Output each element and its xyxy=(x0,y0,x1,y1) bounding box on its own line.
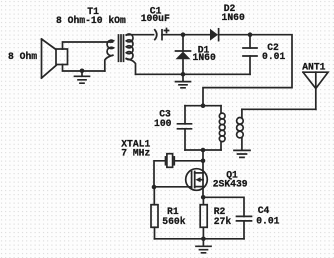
svg-text:100: 100 xyxy=(154,118,172,129)
antenna ANT1 xyxy=(303,72,328,109)
wire coil to antenna xyxy=(242,108,316,110)
wire tank bottom to Q1 drain xyxy=(202,150,204,197)
svg-text:8 Ohm-10 kOm: 8 Ohm-10 kOm xyxy=(56,15,126,26)
capacitor C1 100uF xyxy=(155,29,169,40)
node crystal/drain xyxy=(201,159,206,164)
wire node to D2 xyxy=(183,34,210,36)
node speaker ground junction xyxy=(80,69,85,74)
svg-text:1N60: 1N60 xyxy=(193,52,216,63)
node bottom ground junction xyxy=(201,237,206,242)
svg-text:1N60: 1N60 xyxy=(222,12,245,23)
capacitor C2 0.01 xyxy=(243,35,257,75)
wire T1 secondary bottom xyxy=(126,59,135,75)
node D2/C2 xyxy=(248,32,253,37)
wire speaker top to T1 xyxy=(63,42,113,49)
node gate junction xyxy=(152,185,157,190)
svg-text:8 Ohm: 8 Ohm xyxy=(8,51,37,62)
ground D1 node xyxy=(176,74,191,88)
diode D1 1N60 xyxy=(176,35,191,75)
ground bottom xyxy=(196,239,211,253)
svg-text:ANT1: ANT1 xyxy=(302,62,325,73)
wire node to right corner down to tank xyxy=(203,35,292,106)
svg-text:2SK439: 2SK439 xyxy=(213,178,248,189)
svg-text:560k: 560k xyxy=(162,216,185,227)
wire tank top xyxy=(185,105,221,107)
svg-text:100uF: 100uF xyxy=(141,13,170,24)
transformer T1 xyxy=(105,34,133,71)
ground antenna coil xyxy=(234,150,250,157)
wire T1 secondary top to C1 xyxy=(126,34,153,36)
speaker LS1 8 Ohm xyxy=(42,39,68,78)
node D1 ground junction xyxy=(181,72,186,77)
resistor R2 27k xyxy=(200,197,207,239)
node tank top xyxy=(201,103,206,108)
wire ground bus D1/C2/T1 xyxy=(136,73,250,75)
capacitor C4 0.01 xyxy=(237,216,252,238)
wire speaker bottom xyxy=(63,65,105,72)
wire source to C4 xyxy=(203,197,244,216)
diode D2 1N60 xyxy=(210,29,219,41)
ground speaker xyxy=(75,71,90,83)
inductor L2 antenna coil xyxy=(237,109,244,150)
node tank bottom xyxy=(201,148,206,153)
svg-text:0.01: 0.01 xyxy=(256,215,279,226)
wire gate lead xyxy=(154,186,192,188)
wire C1 to node xyxy=(162,34,183,36)
crystal XTAL1 7 MHz xyxy=(154,154,203,187)
node source junction xyxy=(201,195,206,200)
inductor L1 tank coil xyxy=(219,106,225,150)
node C1/D1/D2 xyxy=(181,32,186,37)
wire tank bottom xyxy=(185,149,221,151)
wire bottom bus xyxy=(155,238,245,240)
svg-text:C4: C4 xyxy=(258,205,270,216)
svg-text:27k: 27k xyxy=(214,216,232,227)
transistor Q1 2SK439 xyxy=(186,169,208,191)
svg-text:0.01: 0.01 xyxy=(262,51,285,62)
wire D2 to node xyxy=(219,34,250,36)
capacitor C3 100 xyxy=(178,106,192,150)
svg-text:7 MHz: 7 MHz xyxy=(121,147,150,158)
resistor R1 560k xyxy=(151,187,158,239)
